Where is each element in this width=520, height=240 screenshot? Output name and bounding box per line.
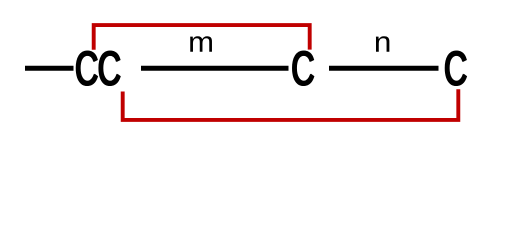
wire bond n (between middle C and right C) xyxy=(329,66,439,71)
atom C3 (middle C) xyxy=(293,51,314,85)
label m xyxy=(190,36,212,51)
atom C4 (right C) xyxy=(445,51,466,85)
atom C1 (first C of CC) xyxy=(76,51,97,85)
atom C2 (second C of CC) xyxy=(99,51,120,85)
wire bond m (between CC and middle C) xyxy=(141,66,289,71)
label n xyxy=(376,36,389,51)
bracket top (red, repeat unit m) xyxy=(94,25,310,50)
bracket bottom (red, repeat unit n) xyxy=(123,89,459,120)
wire left terminal bond xyxy=(25,66,74,71)
